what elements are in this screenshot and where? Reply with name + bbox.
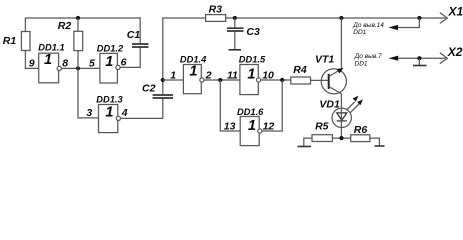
ground bar C3 (229, 49, 242, 51)
wire C3 top lead (234, 18, 236, 28)
wire DD1.4 output pin 2 to DD1.5 pin 11 (204, 79, 240, 81)
transistor VT1 base bar (328, 74, 330, 89)
svg-text:DD1.5: DD1.5 (239, 55, 266, 65)
arrowhead emission 2 (357, 99, 363, 105)
capacitor C3 (227, 28, 244, 31)
wire R1 bottom to DD1.1 input pin 9 (25, 51, 38, 69)
svg-text:C2: C2 (142, 82, 156, 94)
gate DD1.1 box (39, 53, 59, 83)
svg-text:1: 1 (247, 67, 255, 83)
terminal X1 chevron (440, 13, 448, 24)
wire C3 bottom lead (234, 31, 236, 50)
transistor VT1 circle (321, 69, 346, 94)
svg-text:X1: X1 (448, 5, 463, 19)
svg-text:R5: R5 (315, 121, 329, 133)
node junction VT1 collector rail (339, 16, 343, 20)
svg-text:11: 11 (227, 69, 238, 81)
gate DD1.5 box (240, 65, 258, 95)
svg-text:1: 1 (189, 63, 197, 79)
wire R5 ground branch (304, 138, 312, 146)
node junction DD1.5 out / DD1.6 riser (280, 78, 284, 82)
gate DD1.2 box (100, 53, 118, 83)
wire top-left rail from R1 top to C1 corner (25, 18, 140, 44)
LED VD1 cathode bar (337, 120, 347, 122)
gate DD1.3 box (99, 105, 118, 133)
inversion bubble DD1.4 (200, 78, 204, 82)
LED VD1 triangle (337, 113, 347, 120)
gate DD1.4 box (183, 65, 201, 94)
node junction DD1.4 out (218, 78, 222, 82)
LED VD1 emission arrow 2 (350, 104, 359, 113)
transistor VT1 emitter lead with arrow (329, 69, 342, 77)
inversion bubble DD1.3 (116, 116, 120, 120)
svg-text:8: 8 (62, 57, 68, 69)
wire R2 bottom lead (77, 51, 79, 69)
LED VD1 circle (332, 108, 351, 127)
svg-text:DD1.2: DD1.2 (97, 43, 124, 53)
svg-text:VD1: VD1 (319, 99, 340, 111)
svg-text:5: 5 (89, 57, 95, 69)
svg-text:12: 12 (263, 121, 275, 133)
node junction VD1 / R5 / R6 (339, 136, 343, 140)
terminal X2 chevron (440, 53, 448, 64)
wire R2 top lead (77, 18, 79, 31)
arrowhead VT1 emitter (337, 68, 344, 74)
svg-text:DD1: DD1 (355, 61, 368, 68)
svg-text:До выв.14: До выв.14 (352, 22, 384, 29)
wire junction down to DD1.3 input pin 3 (78, 68, 99, 118)
wire X1 branch down-left annotation arrow (398, 18, 419, 28)
svg-text:13: 13 (224, 121, 236, 133)
svg-text:C1: C1 (127, 29, 141, 41)
svg-text:10: 10 (262, 69, 274, 81)
arrowhead emission 1 (353, 96, 359, 102)
resistor R3 (206, 15, 226, 22)
resistor R4 (291, 77, 311, 84)
svg-text:VT1: VT1 (315, 54, 334, 66)
svg-text:4: 4 (121, 107, 128, 119)
svg-text:1: 1 (105, 54, 113, 70)
inversion bubble DD1.6 (258, 129, 262, 133)
svg-text:DD1: DD1 (353, 29, 366, 36)
svg-text:C3: C3 (246, 26, 260, 38)
wire DD1.1 output pin 8 to DD1.2 pin 5 (61, 67, 100, 69)
transistor VT1 collector lead (329, 87, 342, 94)
node junction C3 top (233, 16, 237, 20)
svg-text:X2: X2 (447, 45, 463, 59)
capacitor C1 (132, 44, 149, 47)
svg-text:DD1.6: DD1.6 (237, 107, 264, 117)
wire rail R3 to X1 (226, 17, 446, 19)
svg-text:1: 1 (170, 69, 176, 81)
gate DD1.6 box (240, 117, 259, 146)
resistor R5 (312, 135, 332, 142)
inversion bubble DD1.1 (57, 66, 61, 70)
wire DD1.2 output pin 6 up to C1 (120, 47, 140, 67)
svg-text:6: 6 (121, 56, 127, 68)
svg-text:R6: R6 (354, 124, 368, 136)
node junction X2 ground tap (417, 56, 421, 60)
inversion bubble DD1.5 (257, 78, 261, 82)
svg-text:2: 2 (205, 69, 212, 81)
svg-text:9: 9 (29, 57, 35, 69)
wire X2 line (398, 57, 446, 59)
node junction DD1.1 out / R2 bottom (76, 66, 80, 70)
node junction R2 top (76, 16, 80, 20)
capacitor C2 (153, 95, 173, 98)
node junction X1 branch (417, 16, 421, 20)
ground bar R5 (298, 146, 312, 148)
ground bar X2 (413, 65, 427, 67)
wire DD1.6 output pin 12 riser up to node (262, 80, 282, 131)
svg-text:R1: R1 (3, 35, 17, 47)
wire R6 right to ground (370, 138, 380, 146)
svg-text:R2: R2 (58, 20, 72, 32)
wire DD1.3 output pin 4 to C2 bottom (121, 98, 163, 118)
wire R4 to VT1 base (311, 79, 329, 81)
svg-text:До выв.7: До выв.7 (354, 53, 382, 60)
wire X2 ground lead (418, 58, 420, 65)
wire junction down to DD1.6 input pin 13 (220, 80, 240, 131)
svg-text:3: 3 (86, 107, 92, 119)
svg-text:R3: R3 (209, 4, 223, 16)
wire VD1 vertical through (340, 108, 342, 138)
LED VD1 emission arrow 1 (347, 102, 355, 110)
resistor R1 (21, 32, 30, 51)
arrowhead annotation to pin 14 (388, 25, 398, 30)
resistor R6 (351, 135, 370, 142)
wire VT1 emitter riser to rail (340, 18, 342, 69)
wire DD1.5 output pin 10 to R4 (261, 79, 291, 81)
svg-text:1: 1 (44, 52, 52, 68)
ground bar R6 (375, 145, 385, 147)
svg-text:DD1.3: DD1.3 (96, 94, 123, 104)
svg-text:1: 1 (105, 104, 113, 120)
wire VT1 collector to VD1 (340, 94, 342, 109)
svg-text:1: 1 (248, 118, 256, 134)
arrowhead annotation to pin 7 (389, 56, 399, 61)
wire node to DD1.4 pin 1 (163, 79, 184, 81)
node junction DD1.4 input (161, 78, 165, 82)
wire R5 to R6 (332, 137, 350, 139)
svg-text:R4: R4 (293, 64, 307, 76)
resistor R2 (74, 31, 83, 50)
inversion bubble DD1.2 (116, 65, 120, 69)
wire C2 top to node and up to R3 rail (163, 18, 206, 95)
